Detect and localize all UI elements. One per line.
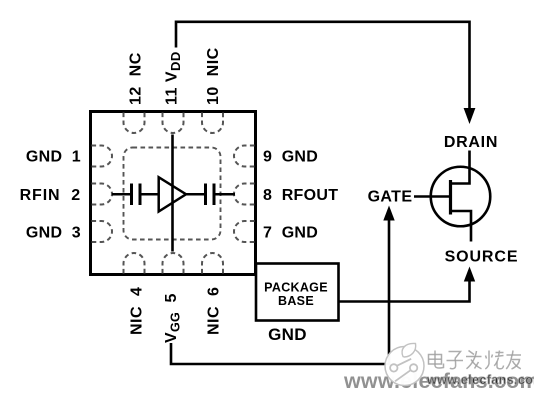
pad pin 12 <box>124 113 145 134</box>
pad pin 4 <box>124 253 145 274</box>
svg-text:9 GND: 9 GND <box>263 149 318 166</box>
svg-text:10 NIC: 10 NIC <box>205 47 222 105</box>
svg-text:PACKAGE: PACKAGE <box>264 281 328 295</box>
watermark chinese characters (hand-drawn strokes) <box>429 351 522 370</box>
svg-text:12 NC: 12 NC <box>128 52 145 105</box>
exposed paddle (dashed) <box>124 148 221 240</box>
wire C2 to RFOUT <box>215 193 235 196</box>
svg-text:8 RFOUT: 8 RFOUT <box>263 187 338 204</box>
PACKAGE BASE box <box>256 264 339 321</box>
svg-text:RFIN 2: RFIN 2 <box>20 187 81 204</box>
arrowhead into SOURCE <box>464 267 475 282</box>
wire amp to C2 <box>186 193 205 196</box>
arrowhead into GATE <box>383 206 394 221</box>
pad pin 6 <box>202 253 223 274</box>
pad pin 9 <box>234 146 254 167</box>
wire VDD top <box>176 22 470 108</box>
char 发 <box>466 351 482 369</box>
char 烧 <box>485 351 503 370</box>
pad pin 10 <box>202 113 223 134</box>
wire RFIN to C1 <box>112 193 131 196</box>
Q1 gate lead <box>414 195 451 198</box>
watermark logo circle <box>385 343 424 385</box>
wire PACKAGE BASE to SOURCE (with arrow) <box>339 281 470 302</box>
capacitor C1 (input) <box>132 184 141 206</box>
transistor Q1 circle <box>431 167 491 227</box>
svg-text:www.elecfans.com: www.elecfans.com <box>426 373 534 387</box>
svg-text:SOURCE: SOURCE <box>445 249 519 266</box>
pad pin 8 <box>234 184 254 205</box>
Q1 gate bar <box>449 180 452 215</box>
arrowhead into DRAIN <box>464 108 476 124</box>
amplifier A1 (triangle) <box>159 177 186 211</box>
Q1 source lead <box>451 211 472 242</box>
svg-text:7 GND: 7 GND <box>263 225 318 242</box>
pad pin 3 <box>92 221 113 242</box>
svg-text:GND 3: GND 3 <box>26 225 81 242</box>
Q1 drain lead <box>451 151 470 184</box>
char 子 <box>447 352 464 369</box>
svg-text:NIC 4: NIC 4 <box>129 287 146 335</box>
wire VGG to GATE (with arrow) <box>171 220 389 365</box>
svg-text:GND: GND <box>268 325 307 344</box>
svg-text:NIC 6: NIC 6 <box>206 287 223 335</box>
bias feed line through amp (pin11 to pin5) <box>171 135 174 252</box>
pad pin 5 <box>163 253 184 274</box>
svg-text:DRAIN: DRAIN <box>444 134 498 151</box>
wire C1 to amp <box>141 193 159 196</box>
pad pin 11 <box>163 113 184 134</box>
capacitor C2 (output) <box>206 184 215 206</box>
svg-text:BASE: BASE <box>278 294 314 308</box>
char 电 <box>429 351 444 369</box>
svg-text:GND 1: GND 1 <box>26 149 81 166</box>
svg-text:GATE: GATE <box>368 189 413 206</box>
char 友 <box>506 351 521 370</box>
pad pin 2 <box>92 184 113 205</box>
pad pin 1 <box>92 146 113 167</box>
package U1 outline <box>91 112 256 275</box>
pad pin 7 <box>234 221 254 242</box>
